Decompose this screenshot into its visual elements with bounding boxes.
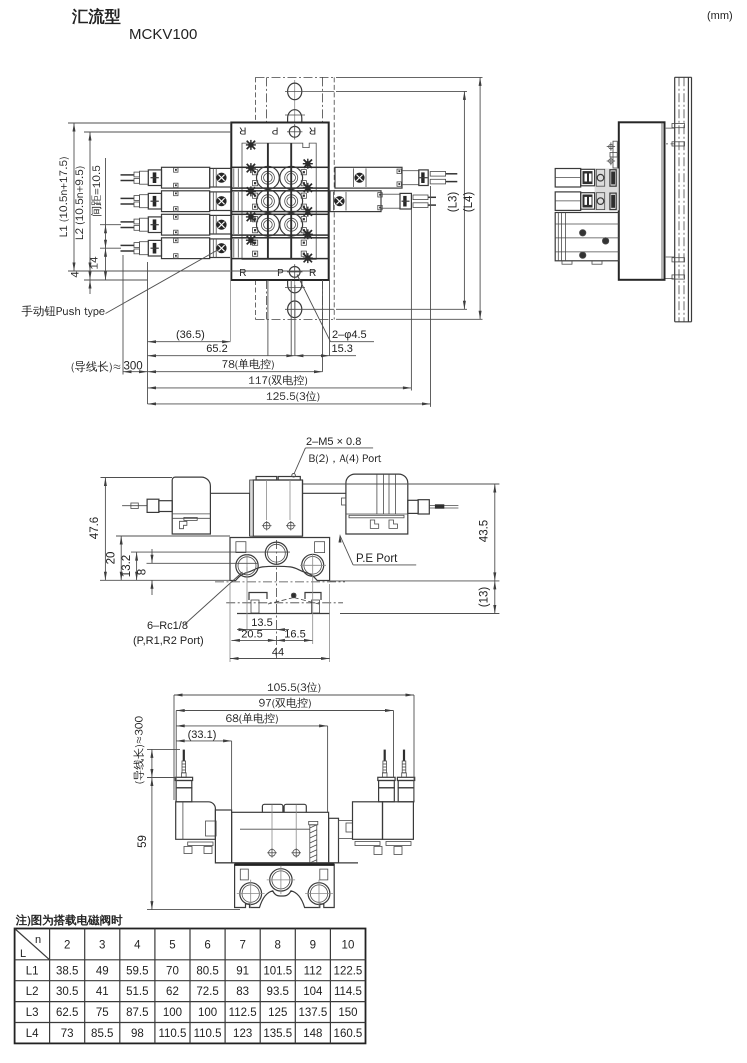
svg-text:123: 123 [233, 1028, 252, 1040]
svg-text:160.5: 160.5 [334, 1028, 363, 1040]
valve V2 right lead wires [428, 197, 436, 205]
svg-text:101.5: 101.5 [263, 965, 292, 977]
data table [15, 929, 366, 1044]
valve V2 right manual override [400, 193, 411, 209]
side view manifold base [619, 122, 665, 279]
svg-text:100: 100 [198, 1007, 217, 1019]
svg-text:4: 4 [134, 940, 141, 952]
side view valve lower body [555, 213, 619, 265]
valve V2 right connector [381, 194, 400, 208]
valve V3 port circles [257, 213, 303, 236]
dimension 15.3 [295, 343, 356, 357]
svg-text:135.5: 135.5 [263, 1028, 292, 1040]
valve V1 wire plugs [134, 171, 148, 184]
valve V4 solenoid body [162, 238, 210, 259]
valve V1 clamp squares [253, 170, 307, 186]
svg-text:110.5: 110.5 [194, 1028, 222, 1040]
svg-text:(mm): (mm) [707, 10, 733, 22]
svg-text:104: 104 [303, 986, 323, 998]
top partial slot [285, 110, 305, 123]
svg-text:100: 100 [163, 1007, 182, 1019]
side view pilot row 2 [555, 192, 616, 211]
bottom view center body [215, 804, 328, 863]
svg-text:49: 49 [96, 965, 109, 977]
svg-text:98: 98 [131, 1028, 144, 1040]
bottom view left solenoid [176, 802, 216, 854]
subtitle MCKV100 [129, 26, 197, 43]
valve V4 clamp squares [253, 240, 307, 256]
valve V4 manual override button [148, 240, 161, 256]
valve V3 adapter section [210, 215, 231, 234]
port labels R P R top rotated [239, 125, 316, 136]
svg-text:20.5: 20.5 [241, 629, 262, 641]
dimension L2 [75, 132, 231, 280]
dimension 44 [230, 584, 330, 662]
svg-text:122.5: 122.5 [334, 965, 363, 977]
svg-text:R: R [309, 125, 316, 136]
svg-text:51.5: 51.5 [126, 986, 148, 998]
valve V1 station body [231, 167, 329, 188]
side view pilot row 1 [555, 169, 616, 188]
valve V2 manual knob [216, 196, 226, 206]
svg-text:43.5: 43.5 [479, 520, 491, 542]
middle view manifold block [215, 538, 345, 582]
valve V2 station body [231, 191, 329, 212]
svg-text:7: 7 [239, 940, 245, 952]
valve V3 manual override button [148, 217, 161, 233]
valve V4 lead wires left [121, 245, 135, 251]
dimension (13) [340, 581, 499, 614]
dimension 13.5 [237, 567, 289, 633]
svg-text:114.5: 114.5 [334, 986, 362, 998]
bottom view right solenoids [216, 802, 413, 863]
top mounting hole [287, 124, 302, 139]
middle view DIN rail [226, 540, 343, 659]
bottom view manifold block [235, 864, 335, 907]
svg-text:6–Rc1/8: 6–Rc1/8 [147, 620, 188, 632]
dimension 59 [137, 778, 240, 910]
dimension 43.5 [303, 484, 499, 581]
gasket inner rectangle [242, 143, 316, 259]
valve V1 right lead wires [446, 174, 458, 182]
middle view right solenoid [342, 474, 408, 534]
svg-text:(36.5): (36.5) [176, 329, 205, 341]
svg-text:R: R [239, 268, 246, 279]
bottom view right pins [382, 750, 406, 778]
valve V2 port circles [257, 190, 303, 213]
valve V1 right connector [402, 171, 419, 185]
valve V3 wire plugs [134, 218, 148, 231]
svg-text:91: 91 [236, 965, 249, 977]
valve V1 right wire plugs [430, 172, 445, 184]
svg-text:72.5: 72.5 [196, 986, 218, 998]
svg-text:112.5: 112.5 [229, 1007, 257, 1019]
dimension (36.5) [148, 329, 231, 343]
svg-text:16.5: 16.5 [284, 629, 305, 641]
dimension 14 [90, 248, 107, 280]
valve V2 right solenoid body [330, 191, 382, 212]
label 2-M5x0.8 [292, 436, 373, 477]
svg-text:13.2: 13.2 [121, 555, 133, 577]
bottom view right caps [378, 777, 415, 802]
svg-text:R: R [239, 125, 246, 136]
svg-text:2: 2 [64, 940, 70, 952]
side view wall plate [675, 77, 692, 321]
valve V2 manual override button [148, 193, 161, 209]
valve V1 right adapter knob [354, 168, 367, 187]
middle view center body [250, 477, 346, 537]
valve V1 manual knob [216, 173, 226, 183]
svg-text:75: 75 [96, 1007, 109, 1019]
svg-text:148: 148 [303, 1028, 322, 1040]
svg-text:MCKV100: MCKV100 [129, 26, 197, 43]
label PE Port [339, 534, 417, 565]
valve V4 adapter section [210, 239, 231, 258]
svg-text:41: 41 [96, 986, 109, 998]
label 2-phi4.5 leader [297, 275, 374, 342]
svg-text:P.E Port: P.E Port [356, 553, 398, 565]
valve V1 right manual override [419, 170, 428, 186]
valve V1 lead wires left [121, 175, 135, 181]
valve V3 station body [231, 214, 329, 235]
dimension 13.2 [121, 552, 290, 580]
svg-text:10: 10 [342, 940, 355, 952]
svg-text:62.5: 62.5 [56, 1007, 78, 1019]
note line [16, 914, 122, 926]
valve V2 clamp squares [253, 193, 307, 209]
bottom view extension lines [174, 695, 414, 812]
svg-text:73: 73 [61, 1028, 74, 1040]
svg-text:80.5: 80.5 [196, 965, 218, 977]
svg-text:2–φ4.5: 2–φ4.5 [332, 329, 367, 341]
svg-text:(L4): (L4) [463, 192, 475, 213]
svg-text:44: 44 [272, 647, 284, 659]
bottom view left interface tab [206, 821, 217, 836]
dimension 105.5 [174, 682, 414, 696]
dimension 4 [71, 257, 92, 294]
svg-text:112: 112 [304, 965, 322, 977]
valve V4 wire plugs [134, 242, 148, 255]
dimension 47.6 [89, 478, 230, 581]
svg-text:93.5: 93.5 [267, 986, 289, 998]
svg-text:(33.1): (33.1) [188, 729, 217, 741]
svg-text:P: P [277, 268, 284, 279]
station screws left column [246, 140, 256, 245]
dimension (L4) [336, 77, 483, 319]
svg-text:137.5: 137.5 [298, 1007, 327, 1019]
bottom mounting slot [285, 301, 334, 318]
bottom mounting hole [287, 264, 302, 279]
svg-text:87.5: 87.5 [126, 1007, 148, 1019]
svg-text:85.5: 85.5 [91, 1028, 113, 1040]
manifold base plate (plan) [231, 123, 328, 281]
svg-text:(P,R1,R2 Port): (P,R1,R2 Port) [133, 635, 204, 647]
valve V1 port circles [257, 166, 303, 189]
dimension 78 single [148, 359, 323, 374]
valve V2 adapter section [210, 192, 231, 211]
svg-text:125: 125 [268, 1007, 287, 1019]
valve V3 manual knob [216, 220, 226, 230]
dimension L1 [59, 123, 316, 271]
svg-text:150: 150 [338, 1007, 357, 1019]
dimension 16.5 [276, 577, 312, 644]
svg-text:(13): (13) [479, 587, 491, 608]
side view screw bosses [672, 124, 685, 280]
svg-text:20: 20 [106, 552, 118, 565]
svg-text:3: 3 [99, 940, 105, 952]
extension lines below top view [123, 186, 431, 407]
svg-text:62: 62 [166, 986, 179, 998]
bottom view left pin [182, 750, 187, 778]
top mounting slot [285, 83, 334, 100]
svg-text:70: 70 [166, 965, 179, 977]
svg-text:6: 6 [204, 940, 210, 952]
valve V4 manual knob [216, 243, 226, 253]
dimension pitch 10.5 [91, 158, 121, 248]
svg-text:L2: L2 [26, 986, 39, 998]
title 汇流型 [72, 8, 120, 24]
dimension 97 [176, 698, 393, 713]
dimension (L3) [336, 91, 467, 309]
top view phantom mounting strip [256, 77, 335, 319]
valve V1 right solenoid 3pos body [335, 167, 402, 188]
dimension 8 [137, 549, 259, 595]
units note (mm) [707, 10, 733, 22]
middle view left connector [122, 499, 172, 512]
svg-text:8: 8 [275, 940, 281, 952]
side view pilot rows shading [595, 169, 619, 211]
svg-text:8: 8 [137, 569, 149, 575]
valve V2 right adapter knob [334, 192, 347, 211]
svg-text:5: 5 [169, 940, 175, 952]
station screws right column [303, 159, 313, 263]
svg-text:2–M5 × 0.8: 2–M5 × 0.8 [306, 436, 361, 448]
dimension 65.2 [148, 343, 295, 357]
svg-text:65.2: 65.2 [206, 343, 227, 355]
bottom partial slot [285, 280, 305, 293]
dimension 125.5 3pos [148, 391, 431, 405]
bottom view right interface [329, 818, 353, 863]
valve V1 adapter section [210, 168, 231, 187]
dimension (33.1) [176, 729, 231, 743]
valve V3 lead wires left [121, 222, 135, 228]
svg-text:R: R [309, 268, 316, 279]
middle view right connector [408, 500, 459, 514]
svg-text:59.5: 59.5 [126, 965, 148, 977]
dimension lead length 300 bottom [134, 716, 181, 783]
side view phantom brackets [665, 128, 675, 279]
valve V1 solenoid body [162, 167, 210, 188]
svg-text:110.5: 110.5 [158, 1028, 186, 1040]
label 6-Rc1/8 [133, 572, 243, 647]
svg-text:L3: L3 [26, 1007, 39, 1019]
svg-text:n: n [35, 934, 41, 946]
svg-text:59: 59 [137, 835, 149, 848]
svg-text:9: 9 [310, 940, 316, 952]
valve V2 wire plugs [134, 195, 148, 208]
valve V3 solenoid body [162, 214, 210, 235]
dimension 68 [176, 713, 327, 728]
port labels R P R bottom [239, 268, 316, 279]
svg-text:300: 300 [124, 361, 143, 373]
bottom view left cap [175, 777, 192, 802]
dimension 20.5 [231, 629, 276, 642]
svg-text:(L3): (L3) [448, 192, 460, 213]
station center verticals [268, 143, 291, 259]
svg-text:13.5: 13.5 [251, 617, 272, 629]
svg-text:L: L [20, 948, 26, 960]
dimension lead length 300 [72, 361, 148, 374]
valve V2 solenoid body [162, 191, 210, 212]
svg-text:P: P [271, 125, 278, 136]
svg-text:38.5: 38.5 [56, 965, 78, 977]
valve V3 clamp squares [253, 217, 307, 233]
valve V2 lead wires left [121, 198, 135, 204]
svg-text:L1: L1 [26, 965, 39, 977]
dimension 117 double [148, 375, 412, 390]
svg-text:83: 83 [236, 986, 249, 998]
middle view left solenoid [172, 477, 250, 536]
svg-text:47.6: 47.6 [89, 517, 101, 539]
valve V4 station body [231, 238, 329, 259]
valve V2 right wire plugs [413, 195, 428, 207]
svg-text:L4: L4 [26, 1028, 39, 1040]
svg-text:30.5: 30.5 [56, 986, 78, 998]
label B2 A4 Port [309, 454, 381, 464]
valve V1 manual override button [148, 170, 161, 186]
dimension 20 [106, 536, 231, 580]
label manual button push type [22, 250, 219, 318]
svg-text:15.3: 15.3 [332, 343, 353, 355]
side view top fittings [607, 141, 618, 168]
